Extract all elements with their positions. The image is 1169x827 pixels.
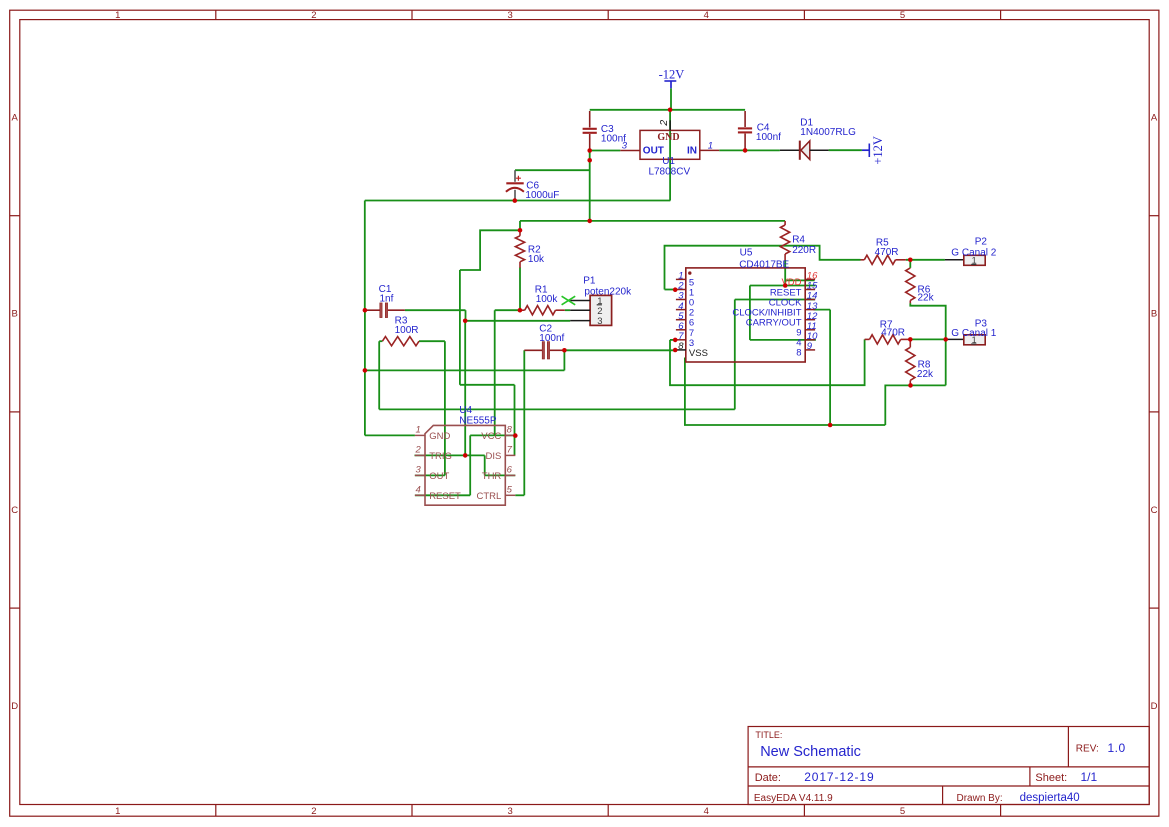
svg-text:CTRL: CTRL <box>476 491 501 502</box>
junction C2 right <box>562 348 567 353</box>
junction P1 pin3 net <box>463 319 468 324</box>
P2 pin lead <box>945 259 964 261</box>
wire R3 down to OUT <box>444 341 446 475</box>
svg-text:5: 5 <box>900 10 905 21</box>
resistor R4 220R <box>781 221 817 260</box>
wire R4 to VDD node <box>784 260 786 286</box>
title block <box>748 727 1149 805</box>
connector P1 poten220k <box>562 275 633 327</box>
U4 pin 1 GND <box>415 434 425 436</box>
junction R1/R2 <box>518 308 523 313</box>
svg-text:220R: 220R <box>792 245 816 256</box>
svg-text:OUT: OUT <box>429 471 449 482</box>
svg-text:22k: 22k <box>917 369 934 380</box>
resistor R2 10k <box>515 230 545 267</box>
U1 pin 1 IN <box>700 149 719 151</box>
wire R6 bottom to node <box>910 303 945 385</box>
svg-text:U5: U5 <box>740 248 753 259</box>
R4 body <box>781 225 790 254</box>
wire to U4 GND <box>365 434 415 436</box>
D1 right lead <box>810 149 829 151</box>
wire VCC row <box>470 434 515 436</box>
connector P3 G Canal 1 <box>946 319 997 346</box>
U5 pin 12 CARRY/OUT <box>746 311 818 329</box>
U1 pin 3 OUT <box>620 150 640 152</box>
svg-text:4: 4 <box>704 806 709 817</box>
wire -12V to node <box>670 88 672 110</box>
U5 pin 8 VSS <box>676 341 708 359</box>
wire pin13 out <box>814 309 831 311</box>
junction C6 bottom <box>513 198 518 203</box>
svg-text:RESET: RESET <box>429 491 461 502</box>
svg-text:P2: P2 <box>975 236 988 247</box>
svg-text:5: 5 <box>507 484 513 495</box>
svg-text:REV:: REV: <box>1076 744 1099 755</box>
capacitor C3 <box>583 111 627 151</box>
svg-text:2: 2 <box>415 444 422 455</box>
svg-text:8: 8 <box>796 348 801 359</box>
resistor R7 470R <box>865 320 911 344</box>
wire R3 right <box>419 340 445 342</box>
U4 pin 3 OUT <box>415 474 425 476</box>
U4 pin 5 CTRL <box>505 494 515 496</box>
junction U5 pin8 <box>673 348 678 353</box>
wire left rail upper <box>364 201 366 311</box>
U5 pin 13 CLOCK/INHIBIT <box>732 301 818 319</box>
U4 pin 4 RESET <box>415 494 425 496</box>
svg-text:L7808CV: L7808CV <box>648 167 690 178</box>
svg-text:VCC: VCC <box>481 431 501 442</box>
wire left rail lower <box>364 370 366 435</box>
wire C1 right <box>405 309 466 311</box>
wire R3 left stub <box>379 340 382 342</box>
wire C3 node down <box>589 151 591 221</box>
svg-text:B: B <box>1151 309 1157 320</box>
svg-text:D: D <box>1151 701 1158 712</box>
capacitor C2 100nf <box>524 323 564 359</box>
wire TRIG DIS row <box>415 454 485 456</box>
svg-text:100R: 100R <box>395 325 419 336</box>
junction pin13 net <box>828 423 833 428</box>
svg-text:VSS: VSS <box>689 348 708 359</box>
wire left rail mid <box>364 310 366 370</box>
svg-text:1N4007RLG: 1N4007RLG <box>800 127 856 138</box>
svg-text:22k: 22k <box>918 293 935 304</box>
svg-text:TITLE:: TITLE: <box>755 730 782 740</box>
svg-text:470R: 470R <box>875 247 899 258</box>
P1 pin1 lead <box>570 300 590 302</box>
svg-text:3: 3 <box>622 140 628 151</box>
svg-text:100k: 100k <box>536 294 559 305</box>
wire OUT to C3 <box>590 150 621 152</box>
svg-text:G Canal 1: G Canal 1 <box>951 328 996 339</box>
wire VDD pin16 <box>785 279 814 281</box>
U5 pin 3 0 <box>676 291 694 309</box>
junction R2 top <box>518 228 523 233</box>
resistor R3 100R <box>382 315 419 345</box>
svg-text:+12V: +12V <box>871 136 885 165</box>
U5 pin 9 8 <box>796 341 815 359</box>
wire pin10 row <box>750 339 816 341</box>
IC U4 NE555P <box>415 405 516 505</box>
wire THR <box>485 474 516 476</box>
wire R2 top stub <box>519 221 521 230</box>
diode D1 1N4007RLG <box>780 117 856 159</box>
wire U1 pin2 column <box>669 110 671 201</box>
svg-text:THR: THR <box>482 471 502 482</box>
wire D1 to +12V <box>829 149 862 151</box>
U4 pin 6 THR <box>505 474 515 476</box>
svg-text:C: C <box>11 505 18 516</box>
wire R1 right to P1 pin2 <box>565 309 570 311</box>
wire R7 to P3 <box>910 338 945 340</box>
P1 pin2 lead <box>570 309 590 311</box>
resistor R1 100k <box>520 284 565 314</box>
U5 pin 4 2 <box>676 301 694 319</box>
junction P3 node <box>943 337 948 342</box>
U5 pin 7 3 <box>676 331 694 349</box>
svg-text:4: 4 <box>416 484 421 495</box>
U5 pin 16 VDD <box>781 271 818 289</box>
svg-text:P1: P1 <box>583 275 596 286</box>
wire C6 top <box>515 169 590 171</box>
wire R2top to R4top <box>520 220 785 222</box>
U5 pin 15 RESET <box>770 281 818 299</box>
R1 body <box>525 306 556 315</box>
svg-text:1: 1 <box>115 806 120 817</box>
svg-text:poten220k: poten220k <box>584 286 632 297</box>
svg-text:A: A <box>1151 113 1158 124</box>
svg-text:DIS: DIS <box>485 451 501 462</box>
wire pin15 row <box>750 285 816 287</box>
svg-text:EasyEDA V4.11.9: EasyEDA V4.11.9 <box>754 793 833 804</box>
wire pin7 to R7 <box>670 339 865 385</box>
wire C6 bottom long <box>365 200 671 202</box>
wire to P1 pin3 <box>465 320 570 322</box>
svg-text:1.0: 1.0 <box>1108 741 1126 755</box>
R7 body <box>870 335 901 344</box>
svg-text:U1: U1 <box>662 156 675 167</box>
wire mid vertical <box>459 270 461 385</box>
svg-text:G Canal 2: G Canal 2 <box>951 248 996 259</box>
U5 pin 1 5 <box>676 271 694 289</box>
svg-text:CARRY/OUT: CARRY/OUT <box>746 318 802 329</box>
wire IN to D1 <box>719 149 780 151</box>
svg-text:B: B <box>12 309 18 320</box>
junction C4/IN <box>743 148 748 153</box>
svg-text:OUT: OUT <box>643 146 664 157</box>
wire R5 to P2 <box>906 259 945 261</box>
U5 pin 6 7 <box>676 321 694 339</box>
svg-text:NE555P: NE555P <box>459 415 497 426</box>
U5 pin 5 6 <box>676 311 694 329</box>
wire C2 down <box>563 350 565 370</box>
junction left rail <box>363 368 368 373</box>
no-connect X on P1 pin 1 <box>562 296 576 305</box>
svg-text:GND: GND <box>429 431 450 442</box>
resistor R5 470R <box>861 238 906 265</box>
wire RESET row <box>415 494 470 496</box>
R3 body <box>382 337 419 346</box>
junction C3/OUT <box>587 148 592 153</box>
svg-text:Sheet:: Sheet: <box>1035 772 1067 784</box>
wire C2 right to VSS <box>564 349 675 351</box>
svg-text:470R: 470R <box>881 328 905 339</box>
wire pin7 jog <box>670 339 676 341</box>
wire U5 bottom route <box>685 358 885 426</box>
svg-text:Date:: Date: <box>755 772 781 784</box>
junction R8 bottom <box>908 383 913 388</box>
capacitor C4 <box>738 111 781 150</box>
svg-text:2017-12-19: 2017-12-19 <box>804 770 874 784</box>
svg-text:7: 7 <box>507 444 513 455</box>
R5 body <box>864 255 895 264</box>
svg-text:Drawn By:: Drawn By: <box>957 793 1003 804</box>
svg-text:2: 2 <box>311 806 316 817</box>
svg-text:1000uF: 1000uF <box>525 190 559 201</box>
wire R6 top stub <box>909 260 911 268</box>
wire R3 left down <box>378 341 380 409</box>
svg-text:D: D <box>11 701 18 712</box>
wire R2 bottom to R1 <box>519 268 521 311</box>
junction TRIG <box>463 453 468 458</box>
D1 left lead <box>780 149 800 151</box>
junction VCC pin8 <box>513 433 518 438</box>
U4 pin 8 VCC <box>505 434 515 436</box>
wire down to TRIG <box>464 321 466 456</box>
svg-text:8: 8 <box>678 341 684 352</box>
junction R5/R6 <box>908 258 913 263</box>
junction rail/R4 wire <box>587 219 592 224</box>
wire R1 left <box>495 309 520 311</box>
wire pin2 to R5 <box>665 246 861 290</box>
svg-text:9: 9 <box>807 341 813 352</box>
U4 pin 7 DIS <box>505 454 515 456</box>
junction C1 left <box>363 308 368 313</box>
U5 pin 10 4 <box>796 331 818 349</box>
svg-text:IN: IN <box>687 146 697 157</box>
U5 pin 11 9 <box>796 321 816 339</box>
svg-text:5: 5 <box>900 806 905 817</box>
svg-text:8: 8 <box>507 424 513 435</box>
wire to DIS <box>460 384 515 386</box>
connector P2 G Canal 2 <box>945 236 997 265</box>
power flag +12V <box>862 136 885 165</box>
wire U5 pin2 <box>665 289 676 291</box>
U4 pin 2 TRIG <box>415 454 425 456</box>
wire R8 bottom route <box>885 385 945 425</box>
R2 body <box>515 236 524 262</box>
svg-text:6: 6 <box>507 464 513 475</box>
wire CTRL stub <box>515 494 524 496</box>
svg-text:10k: 10k <box>528 254 545 265</box>
P3 pin lead <box>946 338 964 340</box>
svg-text:despierta40: despierta40 <box>1020 792 1080 804</box>
U5 pin1 marker <box>688 271 691 274</box>
voltage regulator U1 L7808CV <box>620 120 719 178</box>
svg-text:1nf: 1nf <box>380 294 394 305</box>
junction U5 pin7 <box>673 338 678 343</box>
wire CLOCK vertical <box>734 300 736 410</box>
svg-text:-12V: -12V <box>659 68 685 82</box>
svg-text:3: 3 <box>507 10 512 21</box>
U1 pin 2 GND <box>669 120 671 130</box>
wire long to CLOCK <box>379 408 735 410</box>
resistor R8 22k <box>906 339 934 385</box>
svg-text:1/1: 1/1 <box>1081 770 1098 784</box>
wire C3top to C4top <box>590 109 745 111</box>
wire RESET VCC vertical <box>469 435 471 495</box>
IC U5 CD4017BE <box>686 248 805 362</box>
svg-text:100nf: 100nf <box>539 333 564 344</box>
svg-text:1: 1 <box>416 424 421 435</box>
svg-text:3: 3 <box>597 316 602 327</box>
svg-text:3: 3 <box>416 464 422 475</box>
svg-text:3: 3 <box>507 806 512 817</box>
wire CLOCK row <box>735 299 815 301</box>
wire C2 left to CTRL <box>523 350 525 495</box>
U5 pin 14 CLOCK <box>769 291 818 309</box>
resistor R6 22k <box>906 268 935 304</box>
svg-text:2: 2 <box>658 120 670 127</box>
wire jog to THR <box>484 455 486 475</box>
svg-text:CD4017BE: CD4017BE <box>739 259 789 270</box>
svg-text:C: C <box>1151 505 1158 516</box>
wire down to VCC row <box>494 310 496 435</box>
wire bottom horizontal <box>365 369 565 371</box>
svg-text:R4: R4 <box>792 234 805 245</box>
wire pin13 down <box>829 310 831 425</box>
svg-text:4: 4 <box>704 10 709 21</box>
P1 pin3 lead <box>570 320 590 322</box>
junction R7/R8 <box>908 337 913 342</box>
R8 body <box>906 347 915 380</box>
U5 pin 2 1 <box>676 281 694 299</box>
svg-text:GND: GND <box>657 132 679 143</box>
svg-text:2: 2 <box>311 10 316 21</box>
wire OUT row <box>415 474 445 476</box>
power flag -12V <box>659 68 685 89</box>
svg-text:New Schematic: New Schematic <box>760 744 861 760</box>
svg-text:1: 1 <box>708 140 713 151</box>
svg-text:TRIG: TRIG <box>429 451 452 462</box>
junction U5 pin2 <box>673 287 678 292</box>
wire DIS vertical <box>514 385 516 456</box>
wire inner vertical <box>749 286 751 340</box>
junction VDD node <box>783 283 788 288</box>
capacitor C6 electrolytic <box>506 170 559 201</box>
junction C3 lower <box>587 158 592 163</box>
capacitor C1 1nf <box>366 284 405 317</box>
svg-text:A: A <box>12 113 19 124</box>
R6 body <box>906 268 915 301</box>
junction -12V node <box>668 108 673 113</box>
wire R2top jog <box>460 230 520 270</box>
wire C1 jog down <box>465 310 467 321</box>
svg-text:100nf: 100nf <box>756 132 781 143</box>
svg-text:1: 1 <box>115 10 120 21</box>
